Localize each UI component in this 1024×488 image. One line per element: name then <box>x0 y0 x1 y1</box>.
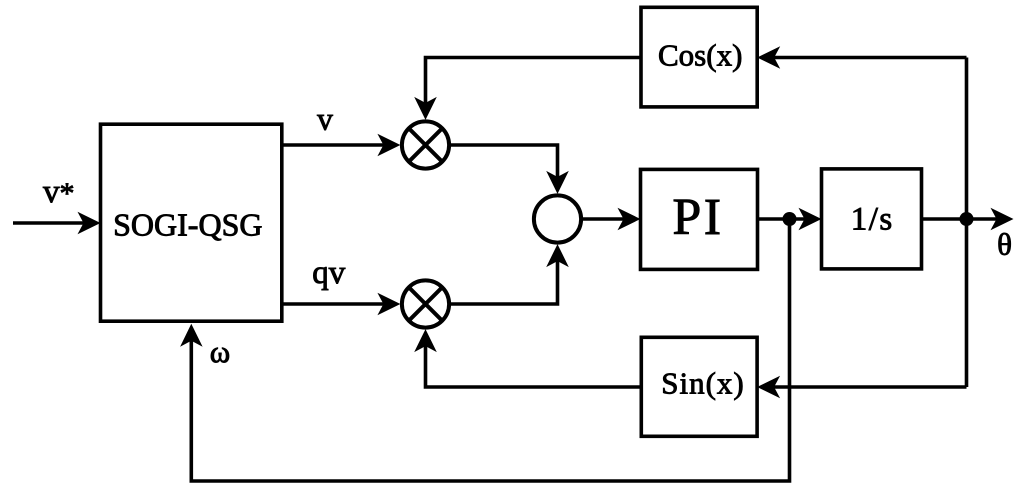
svg-text:qv: qv <box>312 255 346 291</box>
svg-text:Sin(x): Sin(x) <box>661 366 745 401</box>
svg-text:v*: v* <box>43 174 75 210</box>
svg-text:θ: θ <box>997 227 1012 262</box>
svg-text:v: v <box>317 102 333 137</box>
svg-text:ω: ω <box>210 334 230 369</box>
svg-text:Cos(x): Cos(x) <box>658 37 742 72</box>
svg-text:SOGI-QSG: SOGI-QSG <box>113 207 262 243</box>
svg-text:PI: PI <box>672 189 723 246</box>
svg-text:1/s: 1/s <box>851 201 894 237</box>
